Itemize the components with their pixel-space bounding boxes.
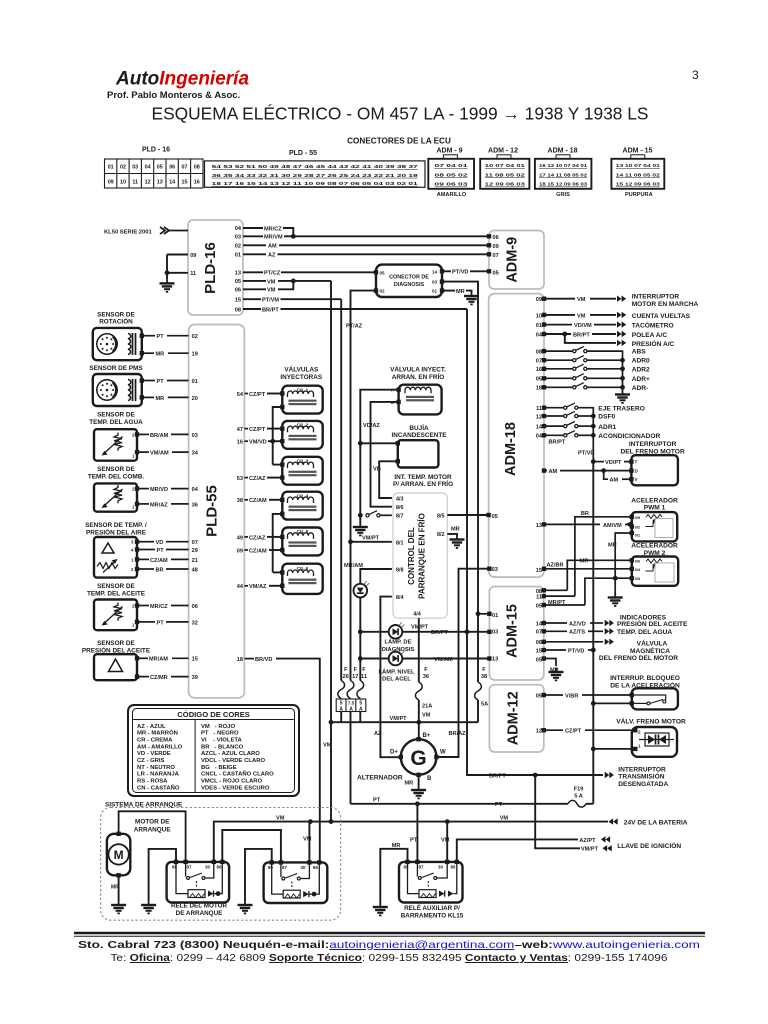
svg-text:30: 30: [205, 864, 210, 869]
svg-text:MR: MR: [156, 396, 165, 402]
svg-text:VMCL - ROJO CLARO: VMCL - ROJO CLARO: [201, 779, 263, 785]
aux relay (rele auxiliar barramento KL15): [399, 860, 463, 903]
svg-text:05: 05: [157, 165, 163, 171]
svg-text:09: 09: [493, 244, 499, 250]
svg-text:13: 13: [157, 179, 163, 185]
svg-text:ADM - 12: ADM - 12: [488, 148, 518, 155]
svg-text:G: G: [410, 747, 426, 770]
svg-text:05: 05: [493, 271, 499, 277]
wire 44 VM/AZ to CIL6 lower: [244, 585, 248, 587]
svg-text:13: 13: [536, 523, 542, 529]
svg-text:01: 01: [432, 289, 438, 294]
long vertical net PT/VD down: [592, 462, 594, 650]
svg-text:03: 03: [132, 165, 138, 171]
svg-text:CZ/AM: CZ/AM: [249, 498, 267, 504]
svg-text:48: 48: [192, 567, 198, 573]
wire BR/PT drop to VM/PT llave: [535, 775, 580, 848]
svg-text:ADR0: ADR0: [632, 358, 650, 365]
wire AZ pin01 to ADM-9 07: [243, 253, 266, 255]
connector ADM-12: [497, 155, 511, 159]
svg-text:VM/PT: VM/PT: [390, 716, 408, 722]
svg-text:86: 86: [217, 864, 222, 869]
svg-text:30: 30: [301, 865, 306, 870]
svg-text:CN - CASTAÑO: CN - CASTAÑO: [137, 784, 180, 791]
svg-text:32: 32: [192, 620, 198, 626]
wire MR to PLD-55 20: [144, 396, 154, 398]
ECU block ADM-15: [489, 587, 543, 681]
svg-text:P/ ARRAN. EN FRÍO: P/ ARRAN. EN FRÍO: [393, 479, 453, 488]
svg-text:BR/PT: BR/PT: [549, 439, 566, 445]
svg-text:VD/AZ: VD/AZ: [363, 423, 380, 429]
svg-text:VM: VM: [276, 816, 285, 822]
connector PLD-55: [205, 161, 426, 187]
svg-text:CZ/PT: CZ/PT: [565, 729, 582, 735]
svg-text:18 17 16 15 14 13 12 11 10 09: 18 17 16 15 14 13 12 11 10 09 08 07 06 0…: [212, 181, 419, 186]
svg-text:06: 06: [235, 287, 241, 293]
wire 08 ABS switch: [544, 350, 574, 352]
svg-text:10 07 04 01: 10 07 04 01: [485, 163, 526, 168]
svg-text:VM/PT: VM/PT: [362, 536, 380, 542]
svg-text:VM: VM: [422, 713, 431, 719]
svg-text:PLD - 55: PLD - 55: [289, 150, 317, 157]
svg-text:18: 18: [237, 657, 243, 663]
svg-text:8/6: 8/6: [396, 505, 404, 511]
svg-text:13: 13: [235, 271, 241, 277]
wire BR/PT pin08: [243, 308, 261, 310]
accelerator PWM1 box: [632, 512, 677, 541]
svg-text:19: 19: [192, 352, 198, 358]
svg-text:38: 38: [237, 498, 243, 504]
wire 47 CZ/PT to CIL2: [244, 428, 248, 430]
injector CIL 2: [282, 421, 322, 449]
wire 07 ADR0 switch: [544, 359, 574, 361]
svg-text:PRESIÓN DEL AIRE: PRESIÓN DEL AIRE: [86, 528, 147, 537]
svg-text:CONECTOR DE: CONECTOR DE: [389, 275, 429, 281]
svg-text:RELÉ AUXILIAR P/: RELÉ AUXILIAR P/: [404, 903, 460, 912]
wire AZ/PT relay86 to llave: [457, 839, 578, 861]
wire 05 V/BR to interrup bloqueo: [544, 694, 563, 696]
svg-text:10: 10: [536, 313, 542, 319]
svg-text:VM: VM: [577, 313, 586, 319]
wire 12 CZ/PT to valv freno: [544, 729, 563, 731]
svg-text:ADM-9: ADM-9: [505, 237, 521, 283]
svg-text:06: 06: [169, 165, 175, 171]
svg-text:16: 16: [194, 179, 200, 185]
svg-text:86: 86: [451, 864, 456, 869]
svg-text:SENSOR DE: SENSOR DE: [97, 312, 135, 319]
svg-text:ADR2: ADR2: [632, 366, 650, 373]
wire valve A down: [360, 390, 398, 444]
svg-text:MR: MR: [580, 559, 589, 565]
wire AZ/BR ADM-18 15 to PWM2 0/4: [544, 568, 632, 570]
svg-text:8/7: 8/7: [396, 513, 404, 519]
svg-text:87: 87: [282, 865, 287, 870]
svg-text:TRANSMISIÓN: TRANSMISIÓN: [618, 772, 664, 781]
svg-text:09: 09: [108, 179, 114, 185]
svg-text:INT. TEMP. MOTOR: INT. TEMP. MOTOR: [394, 474, 452, 481]
accelerator PWM2 box: [632, 557, 678, 586]
svg-text:09: 09: [190, 253, 196, 259]
svg-text:MR/VD: MR/VD: [150, 487, 168, 493]
ECU block ADM-18: [489, 294, 544, 577]
svg-text:DEL FRENO DEL MOTOR: DEL FRENO DEL MOTOR: [599, 655, 678, 662]
svg-text:03: 03: [492, 567, 498, 573]
svg-text:PT: PT: [373, 798, 381, 804]
svg-text:SENSOR DE: SENSOR DE: [97, 412, 135, 419]
wire diag 01 MR to ground: [442, 290, 455, 292]
svg-text:12 09 06 03: 12 09 06 03: [485, 182, 526, 187]
sensor temp comb box: [94, 483, 137, 511]
wire 18 ADR- switch: [544, 386, 574, 388]
wire VM to cuenta vueltas: [544, 314, 575, 316]
svg-text:VM/PT: VM/PT: [581, 847, 599, 853]
ground at PLD-16: [160, 279, 175, 291]
wire 16 VM/VD to CIL2 lower with bus junction: [244, 440, 248, 442]
switch inside bloqueo box: [632, 695, 666, 700]
svg-text:AZ: AZ: [268, 253, 276, 259]
wire BR/PT to polea A/C: [544, 333, 571, 335]
wire valve A net down to switch junction and ground: [359, 443, 361, 515]
svg-text:05: 05: [492, 514, 498, 520]
svg-text:ARRANQUE: ARRANQUE: [134, 826, 172, 833]
control block arranque en frio: [393, 493, 447, 618]
wire CIL4 lower pin to bus2: [273, 514, 283, 573]
svg-text:Prof. Pablo Monteros & Asoc.: Prof. Pablo Monteros & Asoc.: [107, 90, 240, 101]
svg-text:7.5: 7.5: [348, 701, 355, 706]
wire CZ/MR to PLD-55 39: [139, 676, 149, 678]
svg-text:TEMP. DEL COMB.: TEMP. DEL COMB.: [88, 474, 144, 481]
svg-text:SENSOR DE: SENSOR DE: [97, 466, 135, 473]
svg-text:29: 29: [192, 548, 198, 554]
LED lamp nivel del acel: [389, 649, 405, 665]
svg-text:0/3: 0/3: [635, 576, 641, 581]
KL50 SERIE 2001 input: [104, 227, 188, 235]
ECU block PLD-55: [189, 325, 245, 698]
ground ADM-15 05: [549, 668, 564, 680]
svg-text:CR - CREMA: CR - CREMA: [137, 738, 173, 744]
svg-text:ADR+: ADR+: [632, 376, 650, 383]
svg-text:F: F: [353, 667, 357, 673]
wire 14 ADR1 switch: [544, 425, 565, 427]
svg-text:PWM 1: PWM 1: [644, 505, 666, 512]
svg-text:24V DE LA BATERIA: 24V DE LA BATERIA: [624, 820, 688, 827]
wire MR/PT from ADM-15 05 to PWM2 0/3: [585, 578, 632, 605]
svg-text:11: 11: [536, 406, 542, 412]
svg-text:PLD - 16: PLD - 16: [142, 147, 170, 154]
svg-text:F: F: [424, 667, 428, 673]
svg-text:11: 11: [190, 271, 196, 277]
svg-text:PT: PT: [157, 548, 165, 554]
ground below PWM: [614, 578, 616, 593]
ECU block ADM-9: [489, 231, 544, 290]
svg-text:PT: PT: [157, 379, 165, 385]
svg-text:CÓDIGO DE CORES: CÓDIGO DE CORES: [177, 710, 250, 719]
svg-text:PT/AZ: PT/AZ: [346, 324, 363, 330]
wire VD/PT to freno motor T: [593, 461, 604, 463]
svg-text:85: 85: [268, 865, 273, 870]
svg-text:MR/CZ: MR/CZ: [264, 226, 282, 232]
svg-text:8/1: 8/1: [396, 540, 404, 546]
svg-text:BR/AZ: BR/AZ: [449, 731, 467, 737]
svg-text:11: 11: [132, 179, 138, 185]
ECU block ADM-12: [489, 685, 543, 752]
wire PT/VM pin15: [243, 298, 261, 300]
svg-text:10: 10: [120, 179, 126, 185]
svg-text:TEMP. DEL ACEITE: TEMP. DEL ACEITE: [87, 591, 146, 598]
wire PT to PLD-55 01: [144, 380, 155, 382]
wire 04 BR/PT acondicionador switch: [544, 434, 565, 436]
wire middle relay 30 up to VM line: [308, 822, 310, 863]
wire 49 CZ/AZ to CIL5: [244, 536, 248, 538]
svg-text:14 11 08 05 02: 14 11 08 05 02: [616, 172, 661, 177]
svg-text:VD/PT: VD/PT: [605, 460, 622, 466]
svg-text:CZ - GRIS: CZ - GRIS: [137, 758, 165, 764]
svg-text:MR: MR: [156, 352, 165, 358]
svg-text:16: 16: [536, 367, 542, 373]
svg-text:13: 13: [492, 657, 498, 663]
wire valve B down to 8/6: [371, 402, 399, 507]
wire VM/PT to 8/1: [351, 541, 392, 543]
middle starter relay: [264, 860, 328, 903]
svg-text:05: 05: [536, 693, 542, 699]
svg-text:SENSOR DE: SENSOR DE: [97, 640, 135, 647]
svg-text:5 A: 5 A: [574, 794, 583, 800]
wire 05 ADR+ switch: [544, 377, 574, 379]
svg-text:MR/AZ: MR/AZ: [150, 502, 168, 508]
svg-text:VÁLV. FRENO MOTOR: VÁLV. FRENO MOTOR: [616, 716, 686, 725]
svg-text:5A: 5A: [481, 702, 488, 708]
svg-text:LÁMP. NIVEL: LÁMP. NIVEL: [379, 668, 415, 675]
wire VM to interruptor motor en marcha: [544, 298, 575, 300]
svg-text:EJE TRASERO: EJE TRASERO: [598, 405, 645, 412]
svg-text:30: 30: [438, 864, 443, 869]
svg-text:CZ/AZ: CZ/AZ: [249, 535, 266, 541]
svg-text:CUENTA VUELTAS: CUENTA VUELTAS: [632, 313, 691, 320]
svg-text:AutoIngeniería: AutoIngeniería: [115, 69, 249, 90]
svg-text:SENSOR DE TEMP. /: SENSOR DE TEMP. /: [85, 522, 147, 529]
PLD-16 pin numbers right edge: [235, 226, 242, 313]
wire relay 86 to middle relay 87: [222, 830, 281, 862]
svg-text:VM: VM: [441, 838, 450, 844]
svg-text:BR/AM: BR/AM: [150, 433, 169, 439]
wire bloqueo lower to vertical: [593, 702, 632, 704]
wire 8/2 MR to ground: [447, 534, 457, 536]
LED lamp on 8/8 line: [354, 581, 370, 597]
svg-text:BR/VD: BR/VD: [255, 657, 272, 663]
svg-text:MR: MR: [405, 781, 414, 787]
svg-text:07: 07: [192, 540, 198, 546]
svg-text:ESQUEMA ELÉCTRICO - OM 457 LA: ESQUEMA ELÉCTRICO - OM 457 LA - 1999 → 1…: [152, 104, 649, 124]
svg-text:LR - NARANJA: LR - NARANJA: [137, 772, 180, 778]
PLD-55 right pin numbers: [237, 392, 244, 663]
injector CIL 4: [282, 492, 322, 520]
ADM-15 left pins 01 03 13: [478, 613, 489, 615]
svg-text:06: 06: [536, 640, 542, 646]
svg-text:14: 14: [169, 179, 175, 185]
svg-text:3: 3: [692, 68, 699, 82]
LED lamp diagnosis: [389, 622, 405, 638]
svg-text:RS - ROSA: RS - ROSA: [137, 779, 168, 785]
svg-text:ADM-18: ADM-18: [503, 422, 519, 476]
wire bus to CIL3 top: [273, 464, 283, 466]
footer separator double line: [74, 932, 705, 935]
svg-text:PT/CZ: PT/CZ: [264, 271, 281, 277]
lamp nivel line VM/AM: [360, 658, 388, 660]
svg-text:8/4: 8/4: [396, 595, 404, 601]
svg-text:ACELERADOR: ACELERADOR: [631, 497, 678, 504]
svg-text:CZ/AZ: CZ/AZ: [249, 476, 266, 482]
wire PWM1 0/1 MR to ground: [615, 533, 632, 578]
svg-text:MR/AM: MR/AM: [149, 657, 168, 663]
svg-text:18: 18: [536, 386, 542, 392]
motor de arranque box: [107, 834, 130, 876]
wire diag 14 PT/VD to ADM-9 05: [442, 270, 451, 272]
svg-text:VM: VM: [267, 279, 276, 285]
svg-text:08: 08: [194, 165, 200, 171]
svg-text:DIAGNOSIS: DIAGNOSIS: [394, 282, 425, 288]
svg-text:MOTOR DE: MOTOR DE: [135, 818, 170, 825]
svg-text:02: 02: [192, 334, 198, 340]
svg-text:MR: MR: [456, 289, 465, 295]
injector CIL 6: [282, 564, 322, 594]
connector CONECTOR DE DIAGNOSIS: [376, 265, 442, 297]
wire CZ/AM to PLD-55 21: [139, 558, 149, 560]
svg-text:CZ/PT: CZ/PT: [249, 392, 266, 398]
wire PT to PLD-55 02: [144, 335, 155, 337]
svg-text:SENSOR DE PMS: SENSOR DE PMS: [89, 365, 143, 372]
svg-text:15: 15: [182, 179, 188, 185]
lamp diagnosis line BR/PT: [360, 631, 388, 633]
svg-text:LLAVE DE IGNICIÓN: LLAVE DE IGNICIÓN: [617, 841, 681, 850]
svg-text:05: 05: [235, 279, 241, 285]
svg-text:VD - VERDE: VD - VERDE: [137, 751, 171, 757]
wire CIL1 lower pin to bus: [273, 407, 283, 465]
wire 8/4 AZ down to alternator D+: [380, 597, 401, 758]
svg-text:VM/AM: VM/AM: [434, 657, 453, 663]
svg-text:VM/VD: VM/VD: [249, 440, 267, 446]
alternator circle: [401, 739, 437, 775]
svg-text:AM/VM: AM/VM: [603, 523, 622, 529]
svg-text:02: 02: [120, 165, 126, 171]
PLD-16 pin numbers left edge: [190, 253, 196, 277]
svg-text:BR/PT: BR/PT: [489, 773, 506, 779]
wire VM/AM to PLD-55 34: [139, 451, 149, 453]
svg-text:03: 03: [235, 234, 241, 240]
wire 8/5 to ADM-18 05: [447, 514, 488, 516]
sistema de arranque dashed box: [101, 808, 341, 921]
svg-text:TEMP. DEL AGUA: TEMP. DEL AGUA: [89, 419, 143, 426]
wire BR to PLD-55 48: [139, 568, 154, 570]
svg-text:PT: PT: [495, 802, 503, 808]
svg-text:BARRAMENTO KL15: BARRAMENTO KL15: [401, 913, 464, 920]
injector CIL 5: [282, 528, 322, 556]
svg-text:4/4: 4/4: [413, 612, 421, 618]
svg-text:14: 14: [432, 269, 438, 274]
svg-text:26: 26: [343, 674, 349, 680]
wire MR/VD to PLD-55 04: [139, 488, 149, 490]
svg-text:VM/AM: VM/AM: [150, 451, 169, 457]
switch int temp motor to 8/7: [366, 511, 380, 517]
svg-text:0/4: 0/4: [635, 567, 641, 572]
svg-text:AMARILLO: AMARILLO: [437, 192, 467, 198]
wire 06 valvula magnetica: [544, 641, 603, 643]
svg-text:12: 12: [536, 414, 542, 420]
svg-text:ADR1: ADR1: [598, 424, 616, 431]
svg-text:VÁLVULA INYECT.: VÁLVULA INYECT.: [390, 365, 446, 374]
svg-text:15: 15: [192, 657, 198, 663]
injector CIL 3: [282, 457, 322, 485]
sensor temp agua box: [94, 429, 137, 461]
wire PT/CZ pin13 to diagnosis 05: [243, 271, 263, 273]
wire 05 MR ground: [544, 659, 556, 667]
svg-text:11 08 05 02: 11 08 05 02: [485, 172, 526, 177]
svg-text:PT: PT: [157, 620, 165, 626]
svg-text:POLEA A/C: POLEA A/C: [632, 332, 668, 339]
svg-text:36 35 34 33 32 31 30 29 28 27: 36 35 34 33 32 31 30 29 28 27 26 25 24 2…: [212, 173, 419, 178]
PT bottom line: [351, 803, 569, 805]
wire 18 BR/VD to starter relay 86: [244, 658, 254, 660]
svg-text:GRIS: GRIS: [556, 192, 570, 198]
svg-text:AZ/PT: AZ/PT: [579, 838, 596, 844]
svg-text:INYECTORAS: INYECTORAS: [280, 374, 323, 381]
svg-text:PT - NEGRO: PT - NEGRO: [201, 731, 239, 737]
svg-text:F: F: [362, 667, 366, 673]
svg-text:AZ/TS: AZ/TS: [569, 630, 585, 636]
wire BR/PT vertical long: [467, 309, 535, 775]
valv freno motor box: [632, 727, 677, 757]
sensor PMS box: [93, 374, 142, 406]
svg-text:W: W: [440, 750, 446, 756]
svg-text:VM/AZ: VM/AZ: [249, 584, 267, 590]
connector ADM-18: [556, 155, 570, 159]
wire MR/CZ pin04: [243, 227, 263, 229]
svg-text:8/2: 8/2: [437, 532, 445, 538]
ADM-15 pin wires 08 11 05: [544, 589, 568, 591]
wire 14 AZ/VD presion aceite: [544, 622, 567, 624]
wire 15 PT/VD to vertical: [544, 649, 566, 651]
svg-text:39: 39: [192, 675, 198, 681]
svg-text:CZ/MR: CZ/MR: [150, 675, 168, 681]
svg-text:VI - VIOLETA: VI - VIOLETA: [201, 738, 243, 744]
svg-text:MR/VM: MR/VM: [264, 235, 283, 241]
wire relay 85 to ground: [149, 849, 176, 901]
svg-text:MR/CZ: MR/CZ: [150, 604, 168, 610]
svg-text:05: 05: [380, 270, 386, 275]
svg-text:0/1: 0/1: [635, 532, 641, 537]
svg-text:VM: VM: [267, 288, 276, 294]
svg-text:AZCL - AZUL CLARO: AZCL - AZUL CLARO: [201, 751, 260, 757]
svg-text:0/6: 0/6: [635, 559, 641, 564]
wire 53 CZ/AZ to CIL3 lower: [244, 477, 248, 479]
svg-text:INTERRUP. BLOQUEO: INTERRUP. BLOQUEO: [610, 675, 680, 682]
svg-text:54: 54: [237, 392, 244, 398]
svg-text:ROTACIÓN: ROTACIÓN: [99, 317, 133, 326]
svg-text:MR - MARRÓN: MR - MARRÓN: [137, 729, 178, 737]
svg-text:ACONDICIONADOR: ACONDICIONADOR: [598, 433, 660, 440]
svg-text:VM: VM: [303, 837, 312, 843]
svg-text:AZ: AZ: [374, 731, 382, 737]
svg-text:NT - NEUTRO: NT - NEUTRO: [137, 765, 175, 771]
wire 09 CZ/AM to CIL5 lower: [244, 549, 248, 551]
wire diag 03 down long: [442, 282, 478, 614]
svg-text:MR: MR: [608, 542, 617, 548]
wire ADM-18 02 AM to freno motor D and V: [544, 470, 547, 472]
svg-text:D+: D+: [390, 750, 398, 756]
svg-text:07: 07: [536, 630, 542, 636]
wire MR/CZ to PLD-55 06: [139, 605, 149, 607]
svg-text:47: 47: [237, 427, 243, 433]
svg-text:CZ/AM: CZ/AM: [150, 558, 168, 564]
